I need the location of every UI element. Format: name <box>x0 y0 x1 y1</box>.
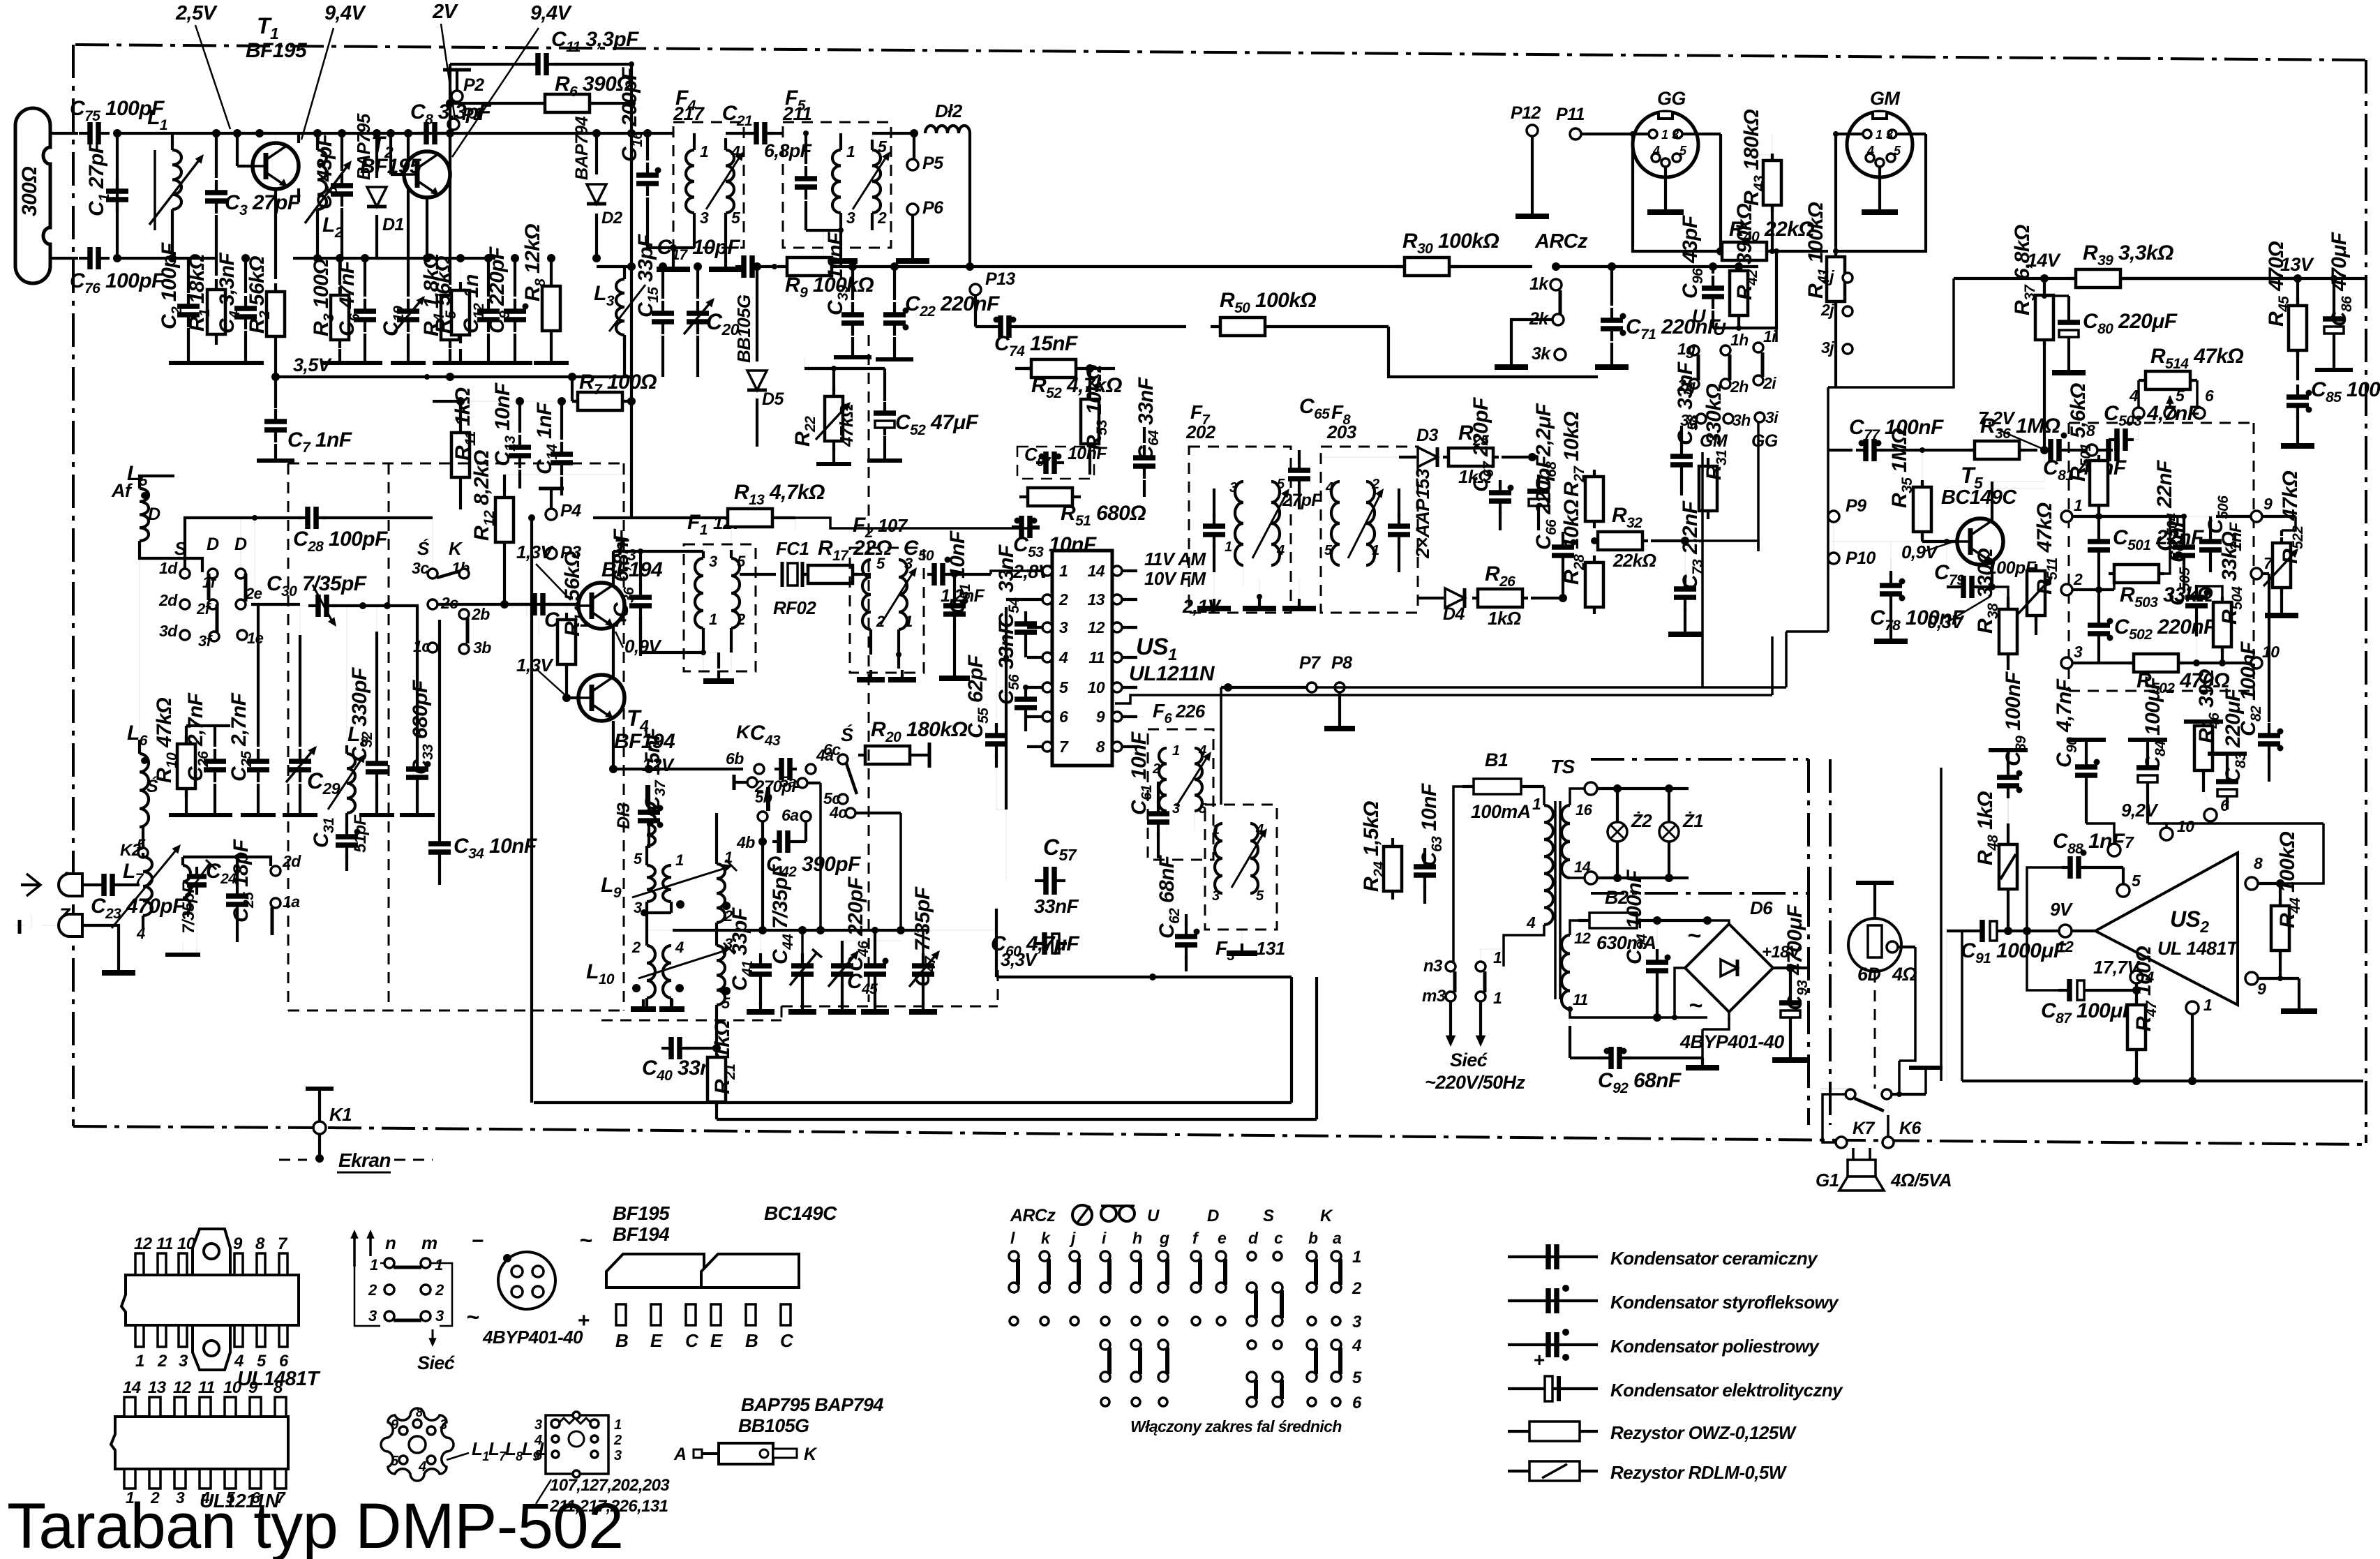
contact 4c <box>846 808 855 818</box>
wire F6 C57 links <box>1005 810 1007 881</box>
tone pins 9 7 10 <box>2251 511 2262 522</box>
svg-text:3: 3 <box>534 1417 542 1433</box>
svg-text:1: 1 <box>1493 989 1502 1007</box>
capacitor C68 2.2uF <box>1537 480 1540 491</box>
svg-text:9: 9 <box>2263 495 2273 513</box>
capacitor C76 100pF <box>79 257 90 260</box>
svg-text:2: 2 <box>736 611 746 628</box>
trimmer C30 7/35pF <box>244 605 310 606</box>
coil can package <box>381 1408 454 1481</box>
svg-text:~: ~ <box>1687 923 1701 949</box>
transistor T2 BF195 <box>389 133 392 174</box>
dashed box tuner <box>287 463 290 1010</box>
US1 pin 13 <box>1112 595 1122 604</box>
US2 pin 8 <box>2245 877 2258 890</box>
svg-text:10: 10 <box>1088 678 1105 696</box>
svg-text:131: 131 <box>1256 938 1285 959</box>
T5 collector <box>1991 488 1993 522</box>
svg-text:226: 226 <box>1175 701 1206 722</box>
coil L9 tall winding <box>717 864 725 923</box>
node top bus <box>117 132 631 135</box>
svg-text:203: 203 <box>1326 422 1357 442</box>
svg-text:51pF: 51pF <box>351 814 370 853</box>
transistor T3 BF194 <box>578 583 624 629</box>
T5 base wire <box>1828 541 1957 542</box>
resistor R35 1M <box>1921 480 1924 539</box>
svg-text:202: 202 <box>1185 422 1216 442</box>
wire box around C60 area <box>995 909 998 977</box>
svg-text:4: 4 <box>418 1459 426 1475</box>
capacitor C32 330pF <box>376 606 377 747</box>
US1 pin 10 <box>1112 682 1122 692</box>
tone pins 1 2 3 <box>2061 511 2072 522</box>
resistor R39 3.3k <box>2069 277 2127 280</box>
svg-text:P4: P4 <box>560 501 581 521</box>
resistor R504 33k <box>2221 597 2224 652</box>
US2 pin 5 <box>2117 884 2130 897</box>
svg-text:3: 3 <box>2074 643 2083 661</box>
resistor R47 100 <box>2135 998 2138 1057</box>
lamp section dashdot box <box>1591 758 1809 761</box>
contacts 2d 1a <box>271 866 280 876</box>
svg-text:1g: 1g <box>1677 340 1696 358</box>
svg-text:UL1211N: UL1211N <box>1129 662 1215 685</box>
resistor R28 10k <box>1593 555 1596 614</box>
legend resistor OWZ <box>1508 1430 1598 1433</box>
US2 pin 1 <box>2186 1001 2199 1014</box>
wire bus to F4 <box>631 132 673 135</box>
wire T2 collector to C11/R6 <box>449 103 451 157</box>
resistor R3 100 <box>338 258 341 285</box>
capacitor C15 33pF <box>662 267 664 297</box>
US2 bottom bus <box>1962 1080 2363 1082</box>
svg-text:Kondensator poliestrowy: Kondensator poliestrowy <box>1610 1336 1820 1357</box>
svg-text:4BYP401-40: 4BYP401-40 <box>482 1327 583 1348</box>
capacitor C503 4.7nF <box>2109 438 2117 441</box>
capacitor C82 100nF <box>2281 595 2282 600</box>
svg-text:12: 12 <box>1088 618 1105 636</box>
svg-text:4: 4 <box>1652 144 1660 158</box>
svg-text:K6: K6 <box>1899 1119 1922 1138</box>
contacts 1j 2j 3j <box>1843 273 1853 283</box>
bridge package 4BYP401-40 <box>498 1252 555 1309</box>
svg-text:3: 3 <box>700 209 709 227</box>
resistor R25 1k <box>1443 456 1499 458</box>
wire L1 bottom <box>171 230 174 258</box>
svg-text:14: 14 <box>123 1378 141 1397</box>
svg-text:6: 6 <box>2205 387 2214 405</box>
svg-text:2e: 2e <box>245 585 262 602</box>
svg-text:BF195: BF195 <box>613 1202 670 1224</box>
svg-text:4: 4 <box>136 925 145 942</box>
svg-text:D6: D6 <box>1750 897 1773 918</box>
resistor R31 330k <box>1707 458 1709 519</box>
svg-text:~: ~ <box>579 1228 592 1253</box>
switch K7 K6 speaker <box>1846 1089 1855 1099</box>
svg-text:217: 217 <box>673 103 705 124</box>
svg-text:Dł2: Dł2 <box>935 100 963 121</box>
capacitor C61 10nF <box>1115 716 1144 717</box>
svg-text:A: A <box>673 1445 686 1464</box>
capacitor C50 1.2nF <box>898 551 899 560</box>
diode D1 BAP795 <box>373 129 381 137</box>
wire R13 long right <box>795 518 1040 528</box>
svg-text:1: 1 <box>1661 128 1668 142</box>
svg-text:Włączony zakres fal średnich: Włączony zakres fal średnich <box>1130 1417 1342 1435</box>
L10 arrow <box>638 950 728 978</box>
pin P3 <box>546 548 557 559</box>
svg-text:P13: P13 <box>985 269 1015 289</box>
US1 pin 14 <box>1112 566 1122 576</box>
wire oscillator box bottom 1 <box>534 1101 1292 1104</box>
fuse B1 100mA <box>1462 785 1532 788</box>
capacitor C44 7/35pF trimmer <box>801 930 804 953</box>
svg-text:K: K <box>449 538 463 559</box>
capacitor C67 220pF <box>1499 475 1501 482</box>
svg-text:b: b <box>1308 1229 1318 1247</box>
capacitor C37 15nF <box>648 809 650 810</box>
capacitor C81 47nF <box>2044 449 2045 451</box>
svg-text:Sieć: Sieć <box>1450 1050 1488 1071</box>
svg-text:TS: TS <box>1550 756 1576 777</box>
capacitor C77 100nF <box>1856 449 1866 452</box>
capacitor C40 33nF <box>661 1047 671 1050</box>
legend styroflex capacitor <box>1508 1299 1598 1302</box>
capacitor C55 62pF <box>996 657 997 719</box>
svg-text:8: 8 <box>1096 738 1105 756</box>
capacitor C62 68nF <box>1185 924 1188 937</box>
US1 pin 1 <box>1042 566 1052 576</box>
capacitor C25 18pF <box>236 857 239 885</box>
transistor T4 BF194 <box>578 675 624 721</box>
capacitor C36 6.8nF <box>640 551 641 562</box>
resistor R6 390 <box>539 102 595 105</box>
capacitor C60 4.7uF <box>1033 942 1045 945</box>
svg-text:1: 1 <box>2203 996 2212 1014</box>
F8 coils <box>1331 482 1340 565</box>
capacitor C506 1nF <box>2209 529 2212 542</box>
US2 pin 9 <box>2245 972 2258 985</box>
capacitor C71 220nF <box>1608 262 1616 271</box>
US1 pin 11 <box>1112 652 1122 662</box>
wire L3 bottom <box>623 335 626 377</box>
svg-text:4: 4 <box>2129 387 2139 405</box>
svg-text:300Ω: 300Ω <box>18 167 41 216</box>
screen node K1 <box>313 1121 326 1134</box>
svg-text:2: 2 <box>1058 590 1068 609</box>
svg-text:5: 5 <box>1352 1368 1362 1387</box>
resistor R22 47k pot <box>832 368 835 391</box>
svg-text:UL 1481T: UL 1481T <box>2157 938 2240 959</box>
capacitor C54 33nF <box>1006 598 1027 601</box>
svg-text:4: 4 <box>1352 1336 1361 1355</box>
wire 2c to T3 <box>438 603 579 606</box>
capacitor C21 6.8pF <box>726 132 752 135</box>
capacitor C87 100uF <box>2027 931 2058 990</box>
svg-text:Sieć: Sieć <box>417 1352 455 1373</box>
capacitor C88 1nF <box>2027 867 2062 931</box>
capacitor C501 22nF <box>2097 516 2100 529</box>
F3 filter 131 <box>1205 805 1277 930</box>
resistor R32 22k <box>1592 539 1648 542</box>
svg-text:3: 3 <box>1212 888 1220 904</box>
diode D4 <box>1445 588 1465 608</box>
ground C24 area <box>182 942 184 955</box>
svg-text:1: 1 <box>709 611 717 628</box>
capacitor C6 47nF <box>364 258 366 297</box>
svg-text:9: 9 <box>248 1378 258 1397</box>
filter can package <box>546 1415 608 1474</box>
svg-text:11: 11 <box>156 1234 173 1253</box>
coil L2 osc <box>316 133 319 150</box>
capacitor C41 33pF <box>760 930 761 953</box>
pin P6 <box>907 204 918 215</box>
svg-text:5: 5 <box>1324 543 1333 558</box>
svg-text:13: 13 <box>148 1378 167 1397</box>
trimmer C24 7/35pF <box>183 865 190 914</box>
svg-text:1d: 1d <box>159 559 178 577</box>
resistor R50 100k <box>1211 325 1275 328</box>
capacitor C26 2.7nF <box>214 726 216 747</box>
resistor R42 390k <box>1738 266 1739 267</box>
US1 pin 5 <box>1042 682 1052 692</box>
choke Dl2 <box>872 132 914 135</box>
svg-text:D2: D2 <box>601 209 623 227</box>
svg-text:2d: 2d <box>158 591 178 609</box>
DIN connector GM <box>1847 112 1913 177</box>
svg-text:5: 5 <box>137 836 146 853</box>
svg-text:GG: GG <box>1657 88 1686 109</box>
capacitor C3 27pF <box>212 129 220 137</box>
svg-text:2d: 2d <box>282 852 301 870</box>
US2 pin 10 <box>2160 828 2173 840</box>
svg-text:5: 5 <box>634 850 643 867</box>
speaker G1 <box>1848 1160 1876 1177</box>
US2 pin 12 <box>2059 925 2072 937</box>
svg-text:2b: 2b <box>471 605 490 623</box>
power dashdot boundary <box>1829 759 1832 1125</box>
svg-text:K: K <box>736 722 751 743</box>
svg-text:S: S <box>1263 1207 1274 1225</box>
svg-text:B: B <box>745 1330 758 1351</box>
capacitor C9 220pF <box>511 254 519 262</box>
svg-text:7/35pF: 7/35pF <box>179 882 198 934</box>
svg-text:Ekran: Ekran <box>338 1149 391 1171</box>
F1 ground <box>703 652 719 653</box>
svg-text:B1: B1 <box>1485 749 1508 770</box>
capacitor C75 100pF <box>79 132 90 135</box>
capacitor C91 1000uF <box>1947 930 1971 932</box>
svg-text:6b: 6b <box>726 749 744 768</box>
svg-text:3: 3 <box>1672 128 1679 142</box>
svg-text:9,4V: 9,4V <box>530 2 573 24</box>
svg-text:1: 1 <box>846 142 855 161</box>
varicap D5 BB105G <box>753 262 761 271</box>
capacitor C64 33nF <box>1144 447 1145 461</box>
resistor R12 8.2k <box>503 475 506 492</box>
resistor R44 100k <box>2279 899 2282 957</box>
svg-text:1: 1 <box>435 1256 443 1274</box>
svg-text:Dł3: Dł3 <box>614 803 634 829</box>
capacitor C94 100nF <box>1656 920 1658 950</box>
svg-text:4: 4 <box>1255 822 1264 837</box>
capacitor C504 22nF <box>2178 516 2179 535</box>
coil L1 tuned <box>171 133 174 150</box>
svg-text:22kΩ: 22kΩ <box>1612 550 1656 571</box>
svg-text:7: 7 <box>1059 738 1069 756</box>
wire mains to B1 <box>1453 786 1474 967</box>
wire 5a down <box>819 783 822 930</box>
svg-text:4Ω/5VA: 4Ω/5VA <box>1890 1170 1952 1191</box>
svg-text:1a: 1a <box>283 893 300 911</box>
svg-text:1: 1 <box>1493 948 1502 967</box>
wire antenna to C75 <box>50 132 78 135</box>
long wires demod to right <box>1317 686 1786 689</box>
resistor R2 56k <box>274 189 277 279</box>
wire mid vertical <box>1701 452 1704 687</box>
capacitor C83 220uF <box>2226 770 2229 782</box>
svg-text:Ż1: Ż1 <box>1682 810 1703 831</box>
pin P5 <box>907 159 918 170</box>
svg-text:2: 2 <box>1152 761 1160 777</box>
dashed gang link vertical <box>868 335 870 1002</box>
svg-text:3: 3 <box>1352 1313 1362 1332</box>
capacitor C53 10nF <box>1012 525 1021 528</box>
dashed tone box <box>2069 422 2254 424</box>
wire C50 to US1 pin1 <box>991 571 1043 574</box>
svg-text:C: C <box>780 1330 794 1351</box>
resistor R17 22 <box>802 573 858 576</box>
pin P11 <box>1570 128 1581 140</box>
svg-text:9: 9 <box>233 1234 243 1253</box>
svg-text:10: 10 <box>177 1234 196 1253</box>
svg-text:GM: GM <box>1870 88 1900 109</box>
svg-text:BF195: BF195 <box>246 39 308 62</box>
svg-text:1,3V: 1,3V <box>516 542 554 562</box>
wire L2 bottom <box>316 230 319 258</box>
voltage 3.5V wire junction <box>446 373 454 381</box>
svg-text:3k: 3k <box>1532 344 1551 364</box>
resistor R46 39 <box>2202 722 2205 775</box>
svg-text:P7: P7 <box>1299 653 1321 673</box>
svg-text:8: 8 <box>2254 854 2263 872</box>
US1 pin 2 <box>1042 595 1052 604</box>
trimmer C29 <box>299 606 301 747</box>
svg-text:5: 5 <box>878 137 888 156</box>
svg-text:ARCz: ARCz <box>1534 230 1588 253</box>
svg-text:5: 5 <box>2132 872 2141 890</box>
svg-text:6: 6 <box>2220 796 2229 814</box>
F2 primary <box>862 560 871 629</box>
svg-text:K1: K1 <box>329 1104 352 1125</box>
filter F5 211 <box>783 122 891 248</box>
svg-text:D1: D1 <box>382 215 404 234</box>
filter F4 217 <box>673 122 744 248</box>
resistor R26 1k <box>1472 597 1528 599</box>
pins P7 P8 <box>1307 682 1317 692</box>
svg-text:11: 11 <box>1573 991 1588 1008</box>
US1 pin 7 <box>1042 742 1052 752</box>
contact 5a <box>798 778 807 788</box>
capacitor C85 100nF <box>2296 385 2299 397</box>
svg-text:2j: 2j <box>1820 301 1834 319</box>
svg-text:6a: 6a <box>781 806 799 824</box>
capacitor C33 680pF <box>417 606 418 755</box>
contact 6a <box>801 812 811 821</box>
svg-text:m: m <box>421 1232 437 1253</box>
svg-text:D: D <box>1207 1207 1219 1225</box>
svg-text:+: + <box>1534 1349 1545 1371</box>
capacitor C93 4700uF <box>1789 992 1792 1003</box>
wire volume to amp vertical <box>1940 768 1943 1081</box>
coil L10 secondary <box>663 946 671 998</box>
capacitor C7 1nF <box>274 345 277 408</box>
resistor R503 33k <box>2072 588 2114 591</box>
svg-text:5: 5 <box>1894 144 1901 158</box>
vertical bus x905 <box>630 64 633 267</box>
capacitor C90 4.7nF <box>2085 754 2088 767</box>
svg-text:2: 2 <box>631 939 641 956</box>
svg-text:9: 9 <box>2257 980 2266 998</box>
svg-text:P12: P12 <box>1511 103 1541 123</box>
svg-text:3j: 3j <box>1821 338 1834 357</box>
F5 primary coil <box>839 133 842 150</box>
svg-text:K7: K7 <box>1853 1119 1875 1138</box>
wire T2 emitter <box>426 197 428 258</box>
resistor R11 1k <box>459 401 462 426</box>
svg-text:9: 9 <box>1096 708 1105 726</box>
pin P1 <box>448 119 459 130</box>
wire US1 left bus <box>1005 607 1008 810</box>
svg-text:d: d <box>1248 1229 1259 1247</box>
capacitor C96 43pF <box>1712 267 1714 279</box>
svg-text:G1: G1 <box>1816 1170 1839 1191</box>
svg-text:6D: 6D <box>1857 964 1880 985</box>
svg-text:1: 1 <box>1372 543 1379 558</box>
resistor R7 100 <box>572 400 578 403</box>
svg-text:FC1: FC1 <box>776 538 809 559</box>
svg-text:27pF: 27pF <box>1282 491 1322 510</box>
svg-text:E: E <box>710 1330 723 1351</box>
coil L3 <box>627 262 636 271</box>
svg-text:n3: n3 <box>1423 957 1443 976</box>
svg-text:1k: 1k <box>1529 274 1549 294</box>
svg-text:6: 6 <box>1352 1394 1362 1412</box>
resistor R4 1.8k <box>449 133 451 285</box>
svg-text:m3: m3 <box>1422 987 1446 1006</box>
svg-text:1: 1 <box>675 851 684 869</box>
svg-text:1: 1 <box>1352 1248 1361 1267</box>
box C97 10nF <box>1017 447 1094 479</box>
svg-text:4Ω: 4Ω <box>1892 964 1917 985</box>
svg-text:BC149C: BC149C <box>764 1202 837 1224</box>
svg-text:C: C <box>685 1330 699 1351</box>
svg-text:1: 1 <box>614 1417 622 1433</box>
F1 secondary <box>731 558 740 628</box>
capacitor C502 220nF <box>2097 590 2100 613</box>
package UL1481T <box>121 1229 299 1370</box>
resistor R27 10k <box>1593 470 1596 528</box>
capacitor C58 33nF <box>1680 444 1683 456</box>
US1 pin 12 <box>1112 622 1122 632</box>
svg-text:33nF: 33nF <box>1034 895 1079 917</box>
svg-text:Kondensator elektrolityczny: Kondensator elektrolityczny <box>1610 1380 1843 1401</box>
svg-text:14: 14 <box>1088 562 1105 580</box>
transformer TS secondary 12-11 <box>1562 935 1570 1009</box>
tone terminals 4 5 6 <box>2133 408 2144 419</box>
capacitor C63 10nF <box>1423 854 1426 867</box>
svg-text:1: 1 <box>1225 539 1232 555</box>
